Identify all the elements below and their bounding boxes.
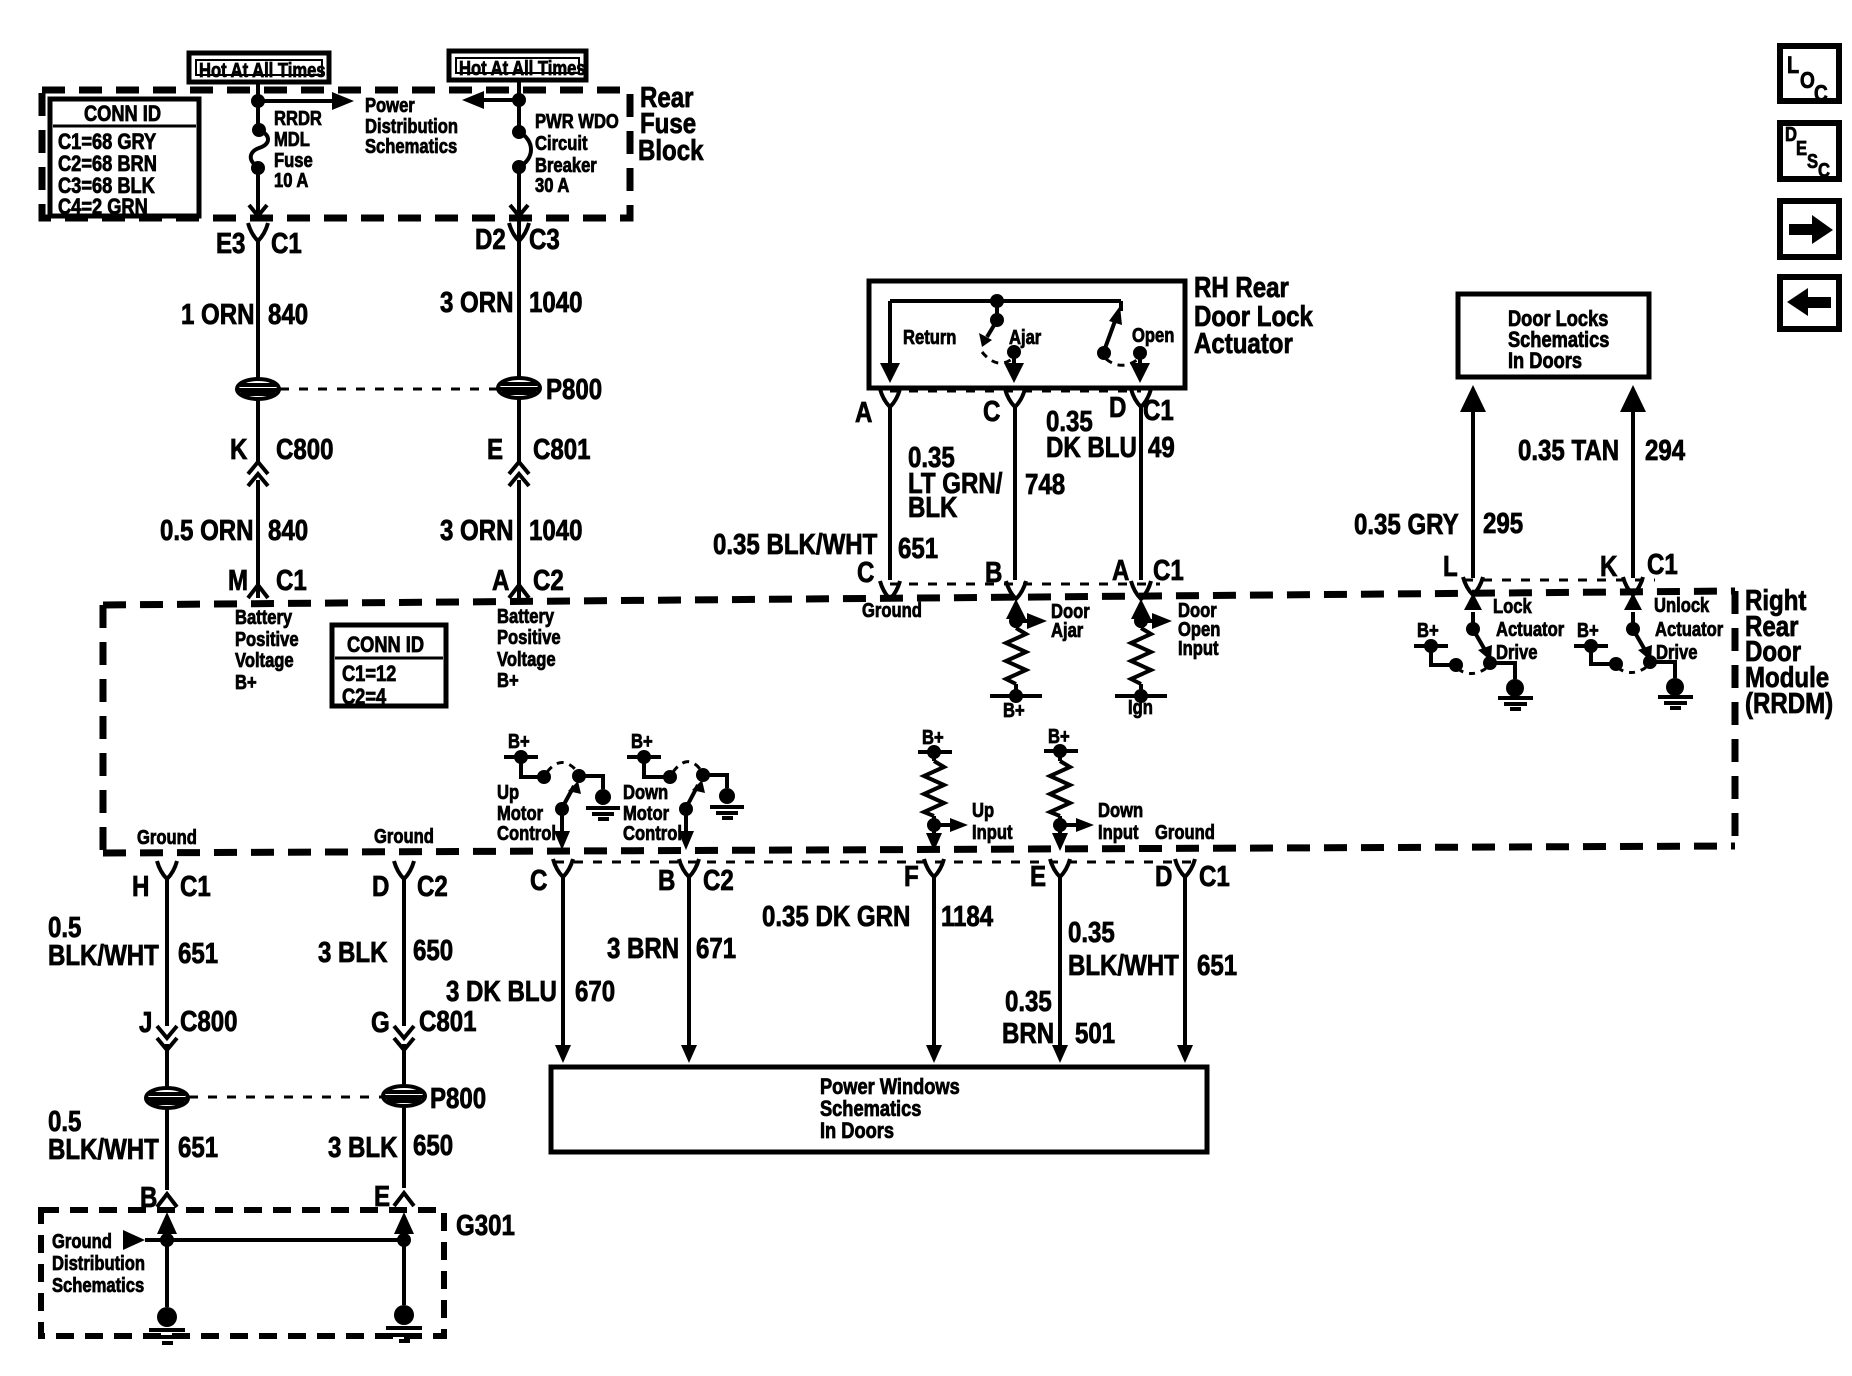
icon LOC button — [1780, 46, 1839, 106]
svg-text:Block: Block — [638, 134, 704, 167]
svg-text:C2: C2 — [417, 870, 448, 903]
svg-text:F: F — [904, 860, 919, 893]
svg-text:0.35 BLK/WHT: 0.35 BLK/WHT — [713, 528, 877, 561]
fuse RRDR MDL 10A symbol — [251, 123, 268, 175]
fork D C2 — [372, 861, 448, 903]
power windows schematics box — [551, 1067, 1207, 1152]
svg-text:B: B — [985, 556, 1002, 589]
battery positive voltage label right — [497, 605, 561, 692]
svg-text:B: B — [658, 864, 675, 897]
svg-text:Up: Up — [972, 799, 994, 822]
svg-text:650: 650 — [413, 934, 453, 967]
svg-text:Ground: Ground — [374, 825, 434, 848]
svg-text:Down: Down — [1098, 799, 1143, 822]
wire down to splice right — [402, 1044, 406, 1086]
svg-text:CONN ID: CONN ID — [347, 634, 424, 658]
svg-text:49: 49 — [1148, 431, 1175, 464]
lock switch B+ terminal — [1414, 619, 1488, 674]
module top connector row dashed — [890, 583, 1160, 586]
svg-text:Positive: Positive — [235, 628, 299, 651]
svg-text:B+: B+ — [922, 726, 944, 749]
svg-text:B+: B+ — [508, 730, 530, 753]
svg-text:0.35 TAN: 0.35 TAN — [1518, 434, 1619, 467]
svg-text:D: D — [372, 870, 389, 903]
icon DESC button — [1780, 123, 1839, 182]
svg-text:Ground: Ground — [52, 1230, 112, 1253]
down input down arrow — [1052, 825, 1068, 851]
svg-text:O: O — [1800, 68, 1815, 93]
svg-text:Positive: Positive — [497, 626, 561, 649]
wire lock 0.35 GRY 295 up arrow — [1354, 385, 1523, 578]
svg-text:D: D — [1109, 391, 1126, 424]
svg-text:Ground: Ground — [862, 599, 922, 622]
fork F — [904, 859, 944, 893]
dashed link between P800 splices — [280, 388, 498, 391]
svg-text:0.35: 0.35 — [1005, 985, 1052, 1018]
svg-text:Input: Input — [1178, 637, 1219, 660]
label G301 — [456, 1209, 515, 1242]
wire from hot2 down — [512, 80, 526, 130]
ajar output arrow — [1004, 352, 1024, 383]
down input right arrow — [1060, 799, 1143, 844]
svg-text:P800: P800 — [546, 373, 602, 406]
RH rear door lock actuator box — [869, 281, 1185, 388]
svg-text:C800: C800 — [276, 433, 333, 466]
resistor down input — [1050, 751, 1070, 832]
svg-text:670: 670 — [575, 975, 615, 1008]
svg-text:(RRDM): (RRDM) — [1745, 687, 1833, 720]
svg-text:B+: B+ — [235, 671, 257, 694]
svg-text:C800: C800 — [180, 1005, 237, 1038]
down motor control to ground — [703, 775, 744, 818]
wire below splice left — [256, 399, 260, 462]
connector table CONN ID (module) — [332, 625, 446, 709]
connector fork D2/C3 — [475, 223, 560, 256]
svg-text:Voltage: Voltage — [497, 648, 556, 671]
return drive arrow — [880, 326, 956, 383]
down motor control switch blade — [679, 768, 710, 816]
svg-text:Schematics: Schematics — [820, 1098, 921, 1122]
hot at all times label 2 — [449, 51, 586, 80]
lock actuator drive: arrow up — [1464, 593, 1482, 636]
wire 0.5 BLK/WHT 651 lower — [48, 1105, 218, 1190]
svg-text:M: M — [228, 564, 248, 597]
svg-text:C3: C3 — [529, 223, 560, 256]
actuator label RH Rear Door Lock Actuator — [1194, 271, 1313, 360]
svg-text:Ajar: Ajar — [1009, 326, 1041, 349]
svg-text:1040: 1040 — [529, 286, 583, 319]
bottom connector row dashed — [555, 861, 1193, 864]
svg-text:In Doors: In Doors — [1508, 350, 1582, 374]
lock actuator drive label — [1493, 595, 1564, 664]
svg-text:Circuit: Circuit — [535, 132, 588, 155]
label P800 — [546, 373, 602, 406]
wire 3 ORN 1040 upper — [440, 218, 583, 379]
lock connector row dashed — [1464, 579, 1655, 582]
connector M C1 chevron — [228, 564, 307, 598]
module label Right Rear Door Module (RRDM) — [1745, 584, 1833, 720]
svg-text:G301: G301 — [456, 1209, 515, 1242]
unlock actuator drive: arrow up — [1624, 593, 1642, 636]
resistor up input — [924, 752, 944, 832]
up motor control label — [497, 781, 556, 845]
svg-text:E: E — [1796, 137, 1807, 160]
svg-text:K: K — [230, 433, 247, 466]
svg-text:Lock: Lock — [1493, 595, 1532, 618]
svg-text:BRN: BRN — [1002, 1017, 1054, 1050]
wire breaker output down with arrow — [510, 167, 528, 216]
svg-text:0.35 GRY: 0.35 GRY — [1354, 508, 1459, 541]
fork B (module) — [985, 556, 1026, 599]
svg-text:Actuator: Actuator — [1496, 618, 1564, 641]
wire A down (0.35 BLK/WHT 651) — [713, 406, 938, 580]
dashed link P800 lower — [189, 1096, 383, 1099]
svg-text:A: A — [855, 396, 872, 429]
svg-text:Power Windows: Power Windows — [820, 1076, 960, 1100]
resistor door open — [1131, 621, 1151, 696]
svg-text:30 A: 30 A — [535, 174, 569, 197]
breaker label PWR WDO Circuit Breaker 30 A — [535, 110, 619, 197]
splice P800 right — [498, 378, 540, 398]
svg-text:J: J — [139, 1006, 152, 1039]
unlock switch to ground — [1650, 662, 1693, 708]
svg-text:In Doors: In Doors — [820, 1120, 894, 1144]
svg-text:B+: B+ — [1048, 725, 1070, 748]
svg-text:P800: P800 — [430, 1082, 486, 1115]
label P800 lower — [430, 1082, 486, 1115]
svg-text:C: C — [857, 556, 874, 589]
svg-text:Actuator: Actuator — [1655, 618, 1723, 641]
door open right arrow — [1141, 599, 1220, 660]
svg-text:651: 651 — [178, 937, 218, 970]
fork C (window motor) — [530, 859, 573, 897]
wire 0.5 BLK/WHT 651 upper — [48, 878, 218, 1026]
svg-text:840: 840 — [268, 298, 308, 331]
hot at all times label 1 — [189, 53, 329, 82]
svg-text:Power: Power — [365, 94, 415, 117]
G301 left up arrow wire — [157, 1212, 177, 1307]
svg-text:840: 840 — [268, 514, 308, 547]
svg-text:C2: C2 — [533, 564, 564, 597]
svg-text:3 BRN: 3 BRN — [607, 932, 679, 965]
svg-text:3 ORN: 3 ORN — [440, 514, 513, 547]
svg-text:Ign: Ign — [1128, 696, 1153, 719]
fork D (actuator) — [1109, 389, 1174, 427]
svg-text:650: 650 — [413, 1129, 453, 1162]
wire from hot1 into fuse — [251, 82, 265, 129]
svg-text:0.35 DK GRN: 0.35 DK GRN — [762, 900, 910, 933]
connector table CONN ID (fuse block) — [50, 99, 199, 219]
svg-text:K: K — [1600, 550, 1617, 583]
up motor control switch blade — [555, 769, 586, 816]
svg-text:651: 651 — [178, 1131, 218, 1164]
svg-text:Down: Down — [623, 781, 668, 804]
splice P800 lower-right — [383, 1086, 425, 1106]
svg-text:C1: C1 — [1199, 860, 1230, 893]
G301 right up arrow wire — [394, 1212, 414, 1305]
svg-text:Hot At All Times: Hot At All Times — [459, 57, 586, 80]
svg-text:D: D — [1155, 860, 1172, 893]
up input down arrow — [926, 825, 942, 851]
fork D C1 — [1155, 859, 1230, 893]
svg-text:3 BLK: 3 BLK — [318, 936, 387, 969]
wire below splice right — [517, 398, 521, 462]
svg-text:E: E — [487, 433, 503, 466]
wire 1 ORN 840 — [181, 240, 308, 379]
svg-text:Unlock: Unlock — [1654, 594, 1710, 617]
ground symbol right — [386, 1305, 422, 1341]
svg-text:651: 651 — [898, 532, 938, 565]
svg-text:C1: C1 — [180, 870, 211, 903]
svg-text:C1=12: C1=12 — [342, 663, 396, 687]
fork E — [1030, 859, 1070, 893]
svg-text:294: 294 — [1645, 434, 1685, 467]
rear fuse block dashed box — [42, 90, 630, 218]
svg-text:CONN ID: CONN ID — [84, 103, 161, 127]
svg-text:B+: B+ — [1003, 699, 1025, 722]
svg-text:C: C — [983, 395, 1000, 428]
svg-text:L: L — [1787, 51, 1799, 78]
svg-text:Ajar: Ajar — [1051, 619, 1083, 642]
svg-text:E: E — [1030, 860, 1046, 893]
svg-text:0.5 ORN: 0.5 ORN — [160, 514, 254, 547]
ground distribution label with arrow — [52, 1230, 145, 1297]
svg-text:651: 651 — [1197, 949, 1237, 982]
door open input: arrow up — [1131, 599, 1151, 628]
fork H C1 — [132, 861, 211, 903]
fuse label RRDR MDL Fuse 10 A — [274, 107, 322, 192]
wire 3 ORN 1040 lower — [440, 480, 583, 598]
svg-text:Schematics: Schematics — [365, 135, 457, 158]
svg-text:1040: 1040 — [529, 514, 583, 547]
svg-text:DK BLU: DK BLU — [1046, 431, 1137, 464]
down input B+ terminal — [1044, 725, 1078, 758]
svg-text:G: G — [371, 1006, 390, 1039]
wire 0.35 BLK/WHT 651 with arrow — [1068, 876, 1237, 1063]
svg-text:C1: C1 — [276, 564, 307, 597]
wire 3 BLK 650 upper — [318, 878, 453, 1026]
wire D down (0.35 DK BLU 49) — [1046, 405, 1175, 580]
svg-text:C1: C1 — [1647, 548, 1678, 581]
wire C down (0.35 LT GRN/BLK 748) — [908, 406, 1065, 580]
ground symbol left — [149, 1307, 185, 1343]
fork C (actuator) — [983, 389, 1025, 428]
svg-text:PWR WDO: PWR WDO — [535, 110, 619, 133]
svg-text:Drive: Drive — [1656, 641, 1697, 664]
door ajar right arrow — [1016, 600, 1090, 642]
down motor control output arrow — [678, 809, 694, 850]
svg-text:Ground: Ground — [1155, 821, 1215, 844]
svg-text:BLK/WHT: BLK/WHT — [48, 1133, 159, 1166]
Ign terminal (door open) — [1115, 689, 1167, 718]
wire 0.35 BRN 501 with arrow — [1002, 876, 1115, 1063]
svg-text:295: 295 — [1483, 507, 1523, 540]
ajar switch — [979, 301, 1041, 363]
svg-text:Open: Open — [1132, 324, 1174, 347]
connector B chevron — [140, 1181, 177, 1214]
svg-text:501: 501 — [1075, 1017, 1115, 1050]
svg-text:B+: B+ — [631, 730, 653, 753]
svg-text:H: H — [132, 870, 149, 903]
svg-text:Up: Up — [497, 781, 519, 804]
resistor door ajar — [1006, 621, 1026, 696]
G301 dashed box — [41, 1210, 444, 1336]
ground bus wire G301 — [145, 1233, 411, 1247]
svg-text:3 ORN: 3 ORN — [440, 286, 513, 319]
right rear door module RRDM dashed box — [103, 591, 1735, 853]
open output arrow — [1130, 353, 1150, 383]
icon next arrow button — [1780, 201, 1839, 257]
svg-text:1 ORN: 1 ORN — [181, 298, 254, 331]
svg-text:C2=4: C2=4 — [342, 686, 387, 710]
door locks schematics box — [1458, 294, 1649, 377]
svg-text:Drive: Drive — [1496, 641, 1537, 664]
ground label (module bottom left) — [137, 826, 197, 849]
svg-text:BLK/WHT: BLK/WHT — [48, 939, 159, 972]
connector E C801 double chevron — [487, 433, 591, 486]
unlock switch B+ terminal — [1574, 619, 1648, 673]
svg-text:Distribution: Distribution — [52, 1252, 145, 1275]
connector G C801 double chevron down — [371, 1005, 477, 1050]
wire fuse output down with arrow — [249, 168, 267, 216]
down motor control label — [623, 781, 682, 845]
wire down to splice — [165, 1044, 169, 1088]
up motor control output arrow — [554, 809, 570, 850]
connector K C800 double chevron — [230, 433, 333, 486]
battery positive voltage label left — [235, 606, 299, 694]
svg-text:1184: 1184 — [941, 900, 993, 933]
wire unlock 0.35 TAN 294 up arrow — [1518, 385, 1685, 578]
fork A (actuator) — [855, 389, 900, 429]
lock switch to ground — [1490, 663, 1533, 709]
svg-text:BLK/WHT: BLK/WHT — [1068, 949, 1179, 982]
svg-text:C4=2 GRN: C4=2 GRN — [58, 196, 148, 220]
rear fuse block label — [638, 81, 704, 167]
svg-text:MDL: MDL — [274, 128, 310, 151]
svg-text:A: A — [1112, 554, 1129, 587]
open switch — [1097, 306, 1174, 365]
splice P800 lower-left — [146, 1088, 188, 1108]
svg-text:Voltage: Voltage — [235, 649, 294, 672]
arrow left to power distribution schematics — [462, 91, 519, 109]
svg-text:C1: C1 — [1143, 394, 1174, 427]
svg-text:671: 671 — [696, 932, 736, 965]
connector J C800 double chevron down — [139, 1005, 237, 1050]
door ajar input: arrow up — [1006, 599, 1026, 628]
icon previous arrow button — [1780, 277, 1839, 329]
svg-text:748: 748 — [1025, 468, 1065, 501]
svg-text:C: C — [530, 864, 547, 897]
svg-text:Ground: Ground — [137, 826, 197, 849]
wire 0.35 DK GRN 1184 with arrow — [762, 876, 993, 1063]
splice P800 left — [237, 379, 279, 399]
ground label (actuator return) — [862, 599, 922, 622]
svg-text:C2: C2 — [703, 864, 734, 897]
svg-text:B+: B+ — [497, 669, 519, 692]
svg-text:C801: C801 — [533, 433, 591, 466]
B+ terminal (door ajar) — [990, 689, 1042, 721]
wire 3 DK BLU 670 with arrow — [446, 876, 615, 1063]
svg-text:Input: Input — [1098, 821, 1139, 844]
wire 3 BRN 671 with arrow — [607, 876, 736, 1063]
actuator connector row dashed — [890, 390, 1141, 393]
svg-text:Schematics: Schematics — [52, 1274, 144, 1297]
arrow to power distribution schematics — [258, 92, 354, 110]
connector E chevron — [374, 1180, 414, 1213]
lock actuator switch blade — [1474, 631, 1497, 670]
up motor control to ground — [579, 776, 620, 819]
ground label (module bottom mid) — [374, 825, 434, 848]
up input B+ terminal — [918, 726, 952, 759]
svg-text:C2=68 BRN: C2=68 BRN — [58, 153, 157, 177]
svg-text:C1: C1 — [1153, 554, 1184, 587]
svg-text:E3: E3 — [216, 227, 245, 260]
fork A (module) — [1112, 554, 1184, 599]
wire 3 BLK 650 lower — [328, 1106, 453, 1188]
svg-text:B+: B+ — [1577, 619, 1599, 642]
connector A C2 chevron — [492, 564, 564, 598]
svg-text:0.35: 0.35 — [1068, 916, 1115, 949]
svg-text:Hot At All Times: Hot At All Times — [199, 59, 326, 82]
svg-text:Input: Input — [972, 821, 1013, 844]
svg-text:B+: B+ — [1417, 619, 1439, 642]
fork K C1 — [1600, 548, 1678, 595]
unlock actuator switch blade — [1634, 631, 1657, 669]
svg-text:RRDR: RRDR — [274, 107, 322, 130]
svg-text:3 BLK: 3 BLK — [328, 1131, 397, 1164]
svg-text:Battery: Battery — [497, 605, 555, 628]
svg-text:C1: C1 — [271, 227, 302, 260]
fork B C2 (window motor) — [658, 859, 734, 897]
ground label (module right) — [1155, 821, 1215, 844]
wire 0.5 ORN 840 — [160, 480, 308, 598]
unlock actuator drive label — [1654, 594, 1723, 664]
svg-text:A: A — [492, 564, 509, 597]
svg-text:10 A: 10 A — [274, 169, 308, 192]
svg-text:L: L — [1443, 550, 1458, 583]
svg-text:Return: Return — [903, 326, 956, 349]
up motor control B+ terminal — [504, 730, 576, 784]
circuit breaker PWR WDO symbol — [512, 125, 531, 174]
fork L — [1443, 550, 1483, 595]
svg-text:Battery: Battery — [235, 606, 293, 629]
svg-text:C: C — [1814, 81, 1828, 106]
actuator internal bus wire — [890, 294, 1121, 366]
svg-text:BLK: BLK — [908, 491, 957, 524]
svg-text:3 DK BLU: 3 DK BLU — [446, 975, 557, 1008]
svg-text:C1=68 GRY: C1=68 GRY — [58, 131, 157, 155]
svg-text:Control: Control — [623, 822, 682, 845]
svg-text:Control: Control — [497, 822, 556, 845]
up input right arrow — [934, 799, 1013, 844]
power distribution schematics label — [365, 94, 458, 158]
connector fork E3/C1 — [216, 223, 302, 260]
svg-text:RH Rear: RH Rear — [1194, 271, 1289, 304]
down motor control B+ terminal — [627, 730, 700, 784]
svg-text:D2: D2 — [475, 223, 506, 256]
svg-text:C801: C801 — [419, 1005, 477, 1038]
fork C (module ground) — [857, 556, 900, 599]
svg-text:C: C — [1818, 159, 1830, 182]
svg-text:S: S — [1807, 150, 1818, 173]
svg-text:Actuator: Actuator — [1194, 327, 1293, 360]
